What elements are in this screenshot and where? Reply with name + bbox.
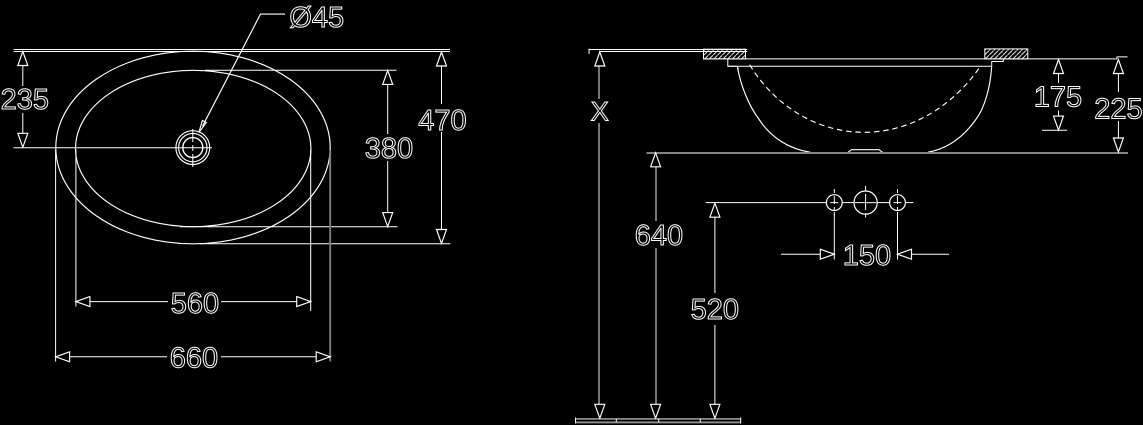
dim 470 bottom arrow <box>437 230 447 244</box>
basin flange left step <box>728 59 738 66</box>
dim 150 left arrow (pointing right) <box>820 249 834 259</box>
svg-text:470: 470 <box>418 105 466 137</box>
counter top line left end tick <box>588 49 590 54</box>
dim 640 top arrow <box>651 153 661 167</box>
dim 470 bottom reference line <box>200 243 450 245</box>
svg-text:640: 640 <box>635 220 683 252</box>
dim 380 vertical dimension line <box>387 84 389 134</box>
basin rim top edge line <box>728 65 992 67</box>
bowl outer wall right <box>928 66 992 152</box>
dim 520 bottom arrow <box>710 404 720 418</box>
counter top line right view (lower stroke) <box>599 51 747 53</box>
left tap hole circle <box>826 195 842 211</box>
dim 470 top arrow <box>437 52 447 66</box>
drain middle circle <box>179 133 207 161</box>
dim 560 extension line right <box>310 150 312 312</box>
floor bar bottom line <box>576 421 741 423</box>
middle tap hole circle <box>854 191 877 214</box>
dim 150 extension line right <box>897 212 899 260</box>
dim 380 bottom arrow <box>383 213 393 227</box>
dim 175 bottom reference line <box>1042 129 1067 131</box>
dim 470 vertical dimension line <box>441 66 443 104</box>
svg-text:235: 235 <box>1 84 49 116</box>
dim 560 dimension line <box>90 301 168 303</box>
dim 520 top arrow <box>710 203 720 217</box>
bottom reference line <box>647 152 1129 154</box>
left tap hole vertical centerline <box>833 189 835 216</box>
leader arrowhead at drain <box>199 121 207 133</box>
leader line for diameter 45 label <box>203 14 286 126</box>
dim 235 bottom arrow <box>18 133 28 147</box>
left counter hatch block <box>704 49 746 59</box>
dim X dimension line <box>598 66 600 99</box>
middle tap hole horizontal crosshair <box>855 202 876 204</box>
basin flange right step <box>992 59 1004 66</box>
inner basin ellipse (bowl, 560x380) <box>76 70 311 226</box>
counter underside line <box>704 58 1118 60</box>
dim X bottom arrow <box>595 404 605 418</box>
dim 640 dimension line <box>655 167 657 221</box>
middle tap hole vertical centerline <box>865 186 867 218</box>
dim 380 top arrow <box>383 70 393 84</box>
tap hole horizontal centerline <box>706 202 827 204</box>
bowl inner surface (hidden, dashed) <box>750 65 980 133</box>
dim 560 right arrow <box>297 297 311 307</box>
floor bar top line <box>576 418 741 420</box>
dim 150 right arrow (pointing left) <box>898 249 912 259</box>
dim 150 extension line left <box>833 212 835 260</box>
dim 520 dimension line <box>714 217 716 293</box>
counter top line right view (upper stroke) <box>589 49 748 51</box>
top edge line (counter front edge, left view, upper stroke) <box>14 49 450 51</box>
drain hole circle (d45) <box>183 138 203 158</box>
dim 560 left arrow <box>76 297 90 307</box>
dim 660 extension line right <box>329 151 331 362</box>
dim 560 extension line left <box>75 150 77 307</box>
dim 225 dimension line <box>1117 74 1119 93</box>
svg-text:175: 175 <box>1034 82 1082 114</box>
right tap hole inner cross <box>894 202 902 204</box>
dim 660 left arrow <box>56 352 70 362</box>
right counter hatch block <box>985 49 1028 59</box>
dim 660 dimension line <box>70 356 167 358</box>
floor bar left cap <box>575 418 577 424</box>
dim 380 bottom reference line <box>180 226 398 228</box>
basin rim left wall tick <box>737 66 739 70</box>
dim 235 vertical dimension line <box>22 66 24 87</box>
svg-text:520: 520 <box>691 294 739 326</box>
svg-text:Ø45: Ø45 <box>289 2 344 34</box>
dim 150 dimension line left part <box>781 253 820 255</box>
left tap hole inner cross <box>830 202 838 204</box>
svg-text:380: 380 <box>365 133 413 165</box>
basin foot bump <box>848 150 883 153</box>
dim X top arrow <box>595 52 605 66</box>
svg-text:225: 225 <box>1094 94 1142 126</box>
floor bar tick 2 <box>658 419 660 422</box>
floor bar tick 1 <box>615 419 617 422</box>
outer basin ellipse (rim, 660x470) <box>56 51 330 244</box>
horizontal centerline through drain <box>14 147 213 149</box>
right tap hole vertical centerline <box>897 189 899 216</box>
right tap hole circle <box>890 195 906 211</box>
bowl outer wall left <box>738 66 811 152</box>
dim 175 bottom arrow <box>1054 116 1064 130</box>
dim 640 bottom arrow <box>651 404 661 418</box>
dim 660 extension line left <box>55 150 57 362</box>
dim 225 bottom arrow <box>1113 138 1123 152</box>
svg-text:150: 150 <box>843 240 891 272</box>
dim 380 top reference line <box>205 69 397 71</box>
svg-text:560: 560 <box>171 288 219 320</box>
drain vertical centerline (dashed) <box>192 129 194 168</box>
dim 660 right arrow <box>316 352 330 362</box>
svg-text:X: X <box>591 97 609 127</box>
drain outer circle <box>176 131 210 165</box>
counter underside right end step <box>1117 57 1128 59</box>
dim 175 top arrow <box>1054 60 1064 74</box>
dim 150 dimension line right part <box>912 253 950 255</box>
top edge line (counter front edge, left view, lower stroke) <box>14 51 450 53</box>
svg-text:660: 660 <box>170 343 218 375</box>
floor bar right cap <box>740 418 742 424</box>
floor bar tick 3 <box>699 419 701 422</box>
dim 225 top arrow <box>1113 60 1123 74</box>
dim 175 dimension line <box>1058 74 1060 84</box>
dim 235 top arrow <box>18 52 28 66</box>
